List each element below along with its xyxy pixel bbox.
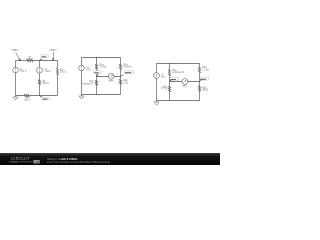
svg-text:1.00 V: 1.00 V (44, 71, 51, 73)
svg-text:100 Ω: 100 Ω (60, 72, 66, 74)
svg-text:10 V: 10 V (161, 77, 166, 79)
svg-text:7.00 V: 7.00 V (20, 71, 27, 73)
svg-text:100 Ω: 100 Ω (24, 99, 30, 101)
svg-text:LAB: LAB (34, 161, 39, 164)
svg-text:1.00 kΩ: 1.00 kΩ (123, 67, 131, 69)
svg-text:1.1 kΩ: 1.1 kΩ (202, 69, 209, 71)
svg-text:unknown R: unknown R (172, 72, 184, 74)
svg-text:100 Ω: 100 Ω (27, 59, 33, 61)
svg-text:1.1 kΩ: 1.1 kΩ (99, 67, 106, 69)
svg-text:1 kΩ: 1 kΩ (123, 82, 128, 84)
svg-text:40 kΩ: 40 kΩ (202, 90, 208, 92)
svg-text:100 Ω: 100 Ω (43, 83, 49, 85)
svg-text:http://circuitlab.com/c6s366mz: http://circuitlab.com/c6s366mz562qe3vbq/ (47, 160, 110, 164)
svg-text:MM1: MM1 (109, 81, 115, 83)
svg-text:unknown R: unknown R (82, 83, 94, 85)
svg-text:Loop 1: Loop 1 (11, 50, 19, 52)
svg-text:MM1: MM1 (182, 86, 188, 88)
svg-text:Loop 2: Loop 2 (50, 50, 58, 52)
svg-text:CIRCUIT: CIRCUIT (11, 156, 30, 161)
svg-text:777 Ω: 777 Ω (161, 89, 167, 91)
svg-text:10 V: 10 V (86, 70, 91, 72)
